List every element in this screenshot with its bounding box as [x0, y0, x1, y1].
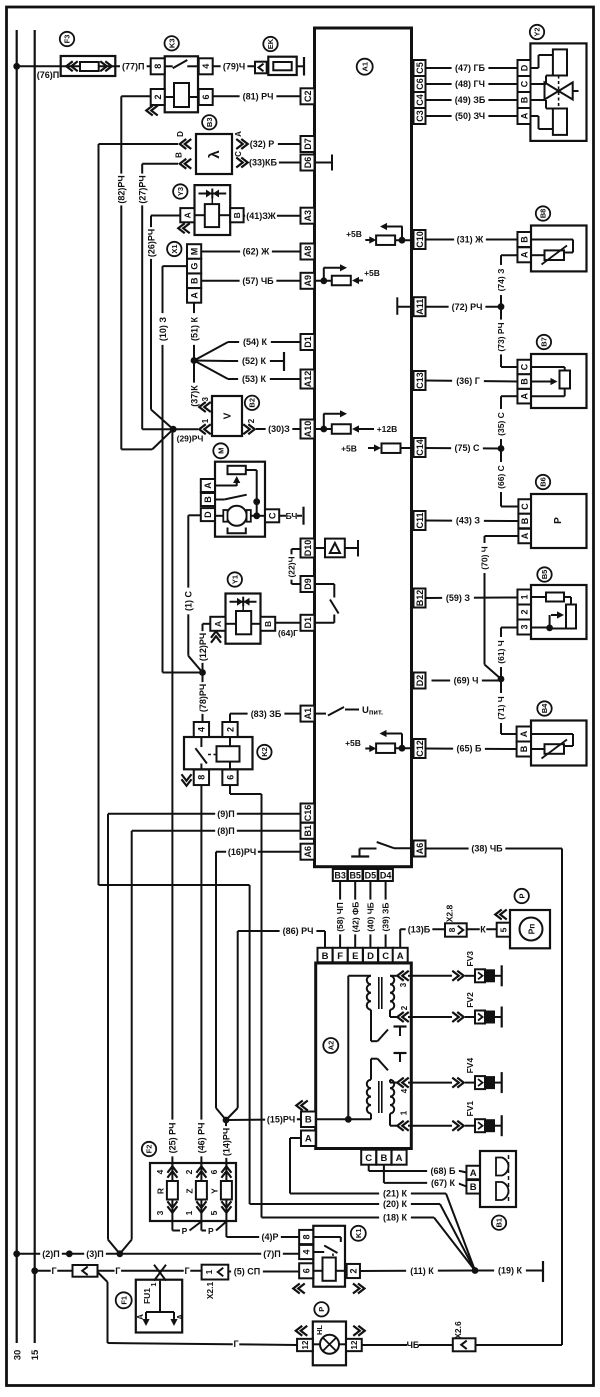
svg-text:(77)П: (77)П	[122, 62, 144, 72]
svg-text:X1: X1	[170, 244, 179, 253]
A2 bottom pin C	[361, 1150, 376, 1165]
label (15)РЧ	[265, 1114, 297, 1125]
svg-text:C12: C12	[415, 740, 425, 757]
svg-text:C13: C13	[415, 372, 425, 389]
label (53) К	[238, 373, 270, 384]
valve Y3 pin B	[230, 208, 243, 222]
relay K3 body	[165, 56, 198, 112]
relay K1 pin 2	[347, 1264, 360, 1278]
svg-text:(78)РЧ: (78)РЧ	[198, 684, 208, 712]
svg-text:X2.8: X2.8	[445, 904, 455, 922]
lambda B3 pin C	[236, 157, 243, 167]
svg-text:2: 2	[400, 1005, 409, 1010]
A2 left pin B	[301, 1112, 316, 1128]
svg-text:K1: K1	[354, 1229, 363, 1239]
ECU pin D6 (left, y=162.5)	[301, 155, 315, 171]
label (43) З	[452, 515, 484, 526]
svg-text:B: B	[322, 951, 329, 962]
label (66) С	[496, 462, 506, 492]
ECU pin D4 (bottom)	[378, 869, 393, 881]
svg-text:D: D	[367, 951, 374, 962]
svg-text:B: B	[174, 152, 183, 158]
svg-text:B: B	[203, 496, 213, 503]
motor M trimmer	[228, 466, 246, 474]
connector mark K2-8	[181, 774, 191, 781]
sensor B5 designator	[537, 567, 551, 581]
label К	[480, 924, 487, 935]
label (62) Ж	[240, 246, 272, 257]
connector X1 pin G	[187, 259, 201, 274]
wire fan to (52)К	[194, 360, 228, 363]
svg-text:B: B	[519, 96, 529, 103]
terminator (52)К	[283, 352, 285, 371]
svg-text:FV3: FV3	[465, 951, 475, 967]
ECU pin A3 (left, y=215.7)	[301, 208, 315, 224]
svg-text:(70) Ч: (70) Ч	[480, 546, 490, 569]
svg-text:C16: C16	[303, 805, 313, 822]
svg-text:B: B	[380, 1153, 387, 1164]
svg-text:D2: D2	[415, 675, 425, 687]
wire (5)СП	[228, 1271, 299, 1273]
label (14)РЧ	[221, 1126, 231, 1158]
connector mark K1 right	[353, 1283, 360, 1293]
stepper Y2 coil 1	[553, 49, 567, 75]
svg-text:A: A	[519, 730, 529, 737]
svg-text:6: 6	[301, 1268, 311, 1273]
sensor B5 trimmer	[566, 605, 576, 629]
ECU pin D5 (bottom)	[363, 869, 378, 881]
ECU pin C6 (right, y=84)	[414, 76, 426, 92]
svg-text:C: C	[365, 1153, 372, 1164]
svg-text:B: B	[520, 517, 530, 524]
wire B3-C to D6	[250, 162, 301, 164]
sensor B2 body	[212, 396, 242, 436]
connector X2.6	[453, 1338, 476, 1351]
svg-text:A9: A9	[303, 275, 313, 287]
junction (14)РЧ	[223, 1117, 230, 1124]
svg-text:D: D	[519, 64, 529, 71]
ECU pin C10 (right, y=239.5)	[414, 230, 426, 249]
svg-text:(67) К: (67) К	[431, 1178, 456, 1188]
relay K3 pin 6	[199, 89, 213, 105]
wire (35)С	[501, 395, 517, 397]
wire (11)К	[360, 1270, 475, 1273]
label Г 4	[233, 1338, 240, 1349]
wire (49)ЗБ	[425, 99, 517, 101]
motor M contact dots	[253, 498, 260, 505]
junction (75)С	[498, 445, 505, 452]
label (50) ЗЧ	[452, 110, 489, 121]
sensor B7 body	[531, 354, 587, 408]
svg-text:4: 4	[197, 727, 207, 732]
wire (27)РЧ vertical	[142, 163, 178, 165]
label (18) К	[379, 1212, 411, 1223]
svg-text:(10) З: (10) З	[158, 317, 168, 342]
junction bus30 bottom	[13, 1250, 20, 1257]
wire (9)П	[108, 813, 301, 815]
svg-text:FU1: FU1	[142, 1288, 152, 1304]
label (71) Ч	[496, 693, 506, 723]
svg-text:B5: B5	[349, 871, 361, 881]
wire (86)РЧ	[324, 931, 326, 948]
svg-text:Р: Р	[182, 1226, 188, 1236]
relay K1 pin 4	[299, 1245, 313, 1259]
svg-text:Y3: Y3	[176, 187, 185, 196]
wire (15)РЧ	[226, 1118, 301, 1121]
stepper Y2 wiring D	[530, 67, 538, 69]
wire (10)З vertical	[163, 265, 188, 267]
svg-text:+5В: +5В	[346, 229, 362, 239]
svg-text:(74) З: (74) З	[496, 269, 506, 292]
stepper Y2 coil 2	[553, 109, 567, 135]
sensor B4 pin A	[517, 727, 531, 742]
label (32) Р	[246, 138, 278, 149]
svg-text:C: C	[382, 951, 389, 962]
relay K1 designator	[351, 1226, 366, 1241]
wire (82)РЧ vertical	[157, 96, 159, 105]
svg-text:(21) К: (21) К	[383, 1189, 408, 1199]
relay K3 designator	[165, 36, 179, 50]
label (65) Б	[453, 743, 485, 754]
ECU pin A6 (right, y=848.5)	[414, 841, 426, 857]
ECU pin C4 (right, y=100)	[414, 92, 426, 108]
A2 top pin C	[378, 948, 393, 963]
wire (70)Ч	[485, 535, 519, 537]
svg-text:(83) ЗБ: (83) ЗБ	[251, 709, 282, 719]
wire fan to (54)К	[194, 342, 228, 361]
lamp HL bulb	[320, 1335, 339, 1354]
svg-text:8: 8	[197, 775, 207, 780]
svg-text:B4: B4	[540, 703, 549, 713]
stepper Y2 body	[530, 43, 586, 140]
svg-text:+5В: +5В	[345, 738, 361, 748]
stepper Y2 wiring C	[530, 83, 546, 85]
sensor B2 pin 2	[243, 424, 250, 434]
svg-text:4: 4	[201, 64, 211, 69]
relay K2 pin 4	[194, 722, 209, 737]
svg-text:(73) РЧ: (73) РЧ	[496, 322, 506, 351]
svg-text:2: 2	[153, 94, 163, 99]
svg-text:(36) Г: (36) Г	[456, 376, 480, 386]
svg-text:(15)РЧ: (15)РЧ	[267, 1115, 295, 1125]
ECU pin A11 (right, y=306.7)	[414, 297, 426, 316]
svg-text:(1) С: (1) С	[184, 591, 194, 612]
connector Г	[73, 1265, 98, 1277]
sensor B2 pin 3	[199, 402, 206, 412]
svg-text:(58) ЧП: (58) ЧП	[335, 902, 345, 932]
fuse block F2 box	[150, 1163, 236, 1221]
svg-text:4: 4	[400, 1088, 409, 1093]
sensor B4 wiring	[531, 733, 573, 735]
sensor B7 pin B	[517, 374, 531, 389]
spark plug FV2 connector	[452, 1012, 459, 1022]
ignition module A2 box	[316, 963, 412, 1149]
wire (8)П	[132, 830, 301, 832]
relay K3 pin 2	[151, 89, 165, 105]
label (67) К	[427, 1177, 459, 1188]
svg-text:6: 6	[225, 775, 235, 780]
svg-text:(62) Ж: (62) Ж	[243, 247, 271, 257]
label (37)К	[189, 383, 199, 410]
svg-text:M: M	[189, 248, 199, 256]
svg-text:D1: D1	[303, 336, 313, 348]
A2 bottom pin A	[392, 1150, 407, 1165]
ECU pin C13 (right, y=380.5)	[414, 371, 426, 390]
svg-text:(31) Ж: (31) Ж	[457, 235, 485, 245]
svg-text:A3: A3	[303, 210, 313, 222]
svg-text:C2: C2	[303, 91, 313, 103]
A2 transformer 2 secondary	[390, 1080, 394, 1114]
ECU pin A6 (left, y=851.7)	[301, 844, 315, 860]
ECU pin B3 (bottom)	[333, 869, 348, 881]
svg-text:V: V	[223, 412, 234, 419]
svg-text:1: 1	[519, 594, 529, 599]
svg-text:R: R	[155, 1188, 165, 1194]
label (7)П	[261, 1248, 283, 1259]
sensor B8 body	[531, 226, 587, 272]
wire (14)РЧ vertical	[225, 1120, 227, 1167]
svg-text:Р: Р	[208, 1226, 214, 1236]
svg-text:(20) К: (20) К	[383, 1199, 408, 1209]
label (9)П	[215, 808, 237, 819]
fuse block F2 designator	[142, 1142, 156, 1156]
svg-text:G: G	[189, 263, 199, 270]
label (59) З	[442, 592, 474, 603]
sensor B8 pin A	[517, 247, 531, 262]
label (38) ЧБ	[469, 843, 506, 854]
label (73) РЧ	[496, 320, 506, 355]
wire (2)П/(3)П/(7)П	[17, 1253, 300, 1255]
svg-text:(52) К: (52) К	[242, 356, 267, 366]
svg-text:B1: B1	[495, 1218, 504, 1228]
fuse F1 designator	[116, 1292, 132, 1308]
ECU pin D9 (left, y=584)	[301, 576, 315, 592]
fuse F1 box	[136, 1280, 182, 1333]
wire (12)РЧ vertical	[203, 623, 211, 625]
svg-text:(22)Ч: (22)Ч	[287, 556, 297, 577]
label (5) СП	[231, 1266, 263, 1277]
svg-text:A6: A6	[415, 843, 425, 855]
ECU internal D6 stub	[315, 162, 333, 164]
svg-text:Р: Р	[317, 1307, 326, 1312]
relay K1 coil	[323, 1258, 336, 1281]
motor M body	[215, 462, 265, 537]
sensor B2 pin 1	[199, 424, 206, 434]
svg-text:(29)РЧ: (29)РЧ	[177, 434, 204, 444]
wire (68)Б	[368, 1165, 370, 1171]
svg-text:FV1: FV1	[465, 1101, 475, 1117]
ECU A1 designator	[357, 59, 373, 75]
connector B1 body	[480, 1151, 516, 1207]
label (70) Ч	[480, 543, 490, 573]
ignition module A2 designator	[323, 1038, 338, 1053]
wire (71)Ч	[500, 679, 502, 734]
svg-text:A12: A12	[303, 371, 313, 388]
label (75) С	[451, 442, 483, 453]
fuse F3 designator	[60, 32, 74, 46]
svg-text:5: 5	[498, 927, 508, 932]
ECU pin D1 (left, y=622.8)	[301, 615, 315, 631]
svg-text:(38) ЧБ: (38) ЧБ	[471, 844, 503, 854]
svg-text:(54) К: (54) К	[243, 337, 268, 347]
wire (75)С	[425, 447, 501, 450]
wire X1-M to A8	[201, 251, 300, 253]
svg-text:(33)КБ: (33)КБ	[249, 158, 277, 168]
label (12)РЧ	[197, 631, 207, 663]
svg-text:(59) З: (59) З	[446, 593, 471, 603]
lamp HL body	[313, 1322, 346, 1366]
svg-text:3: 3	[155, 1210, 165, 1215]
svg-text:A: A	[470, 1168, 477, 1179]
label (1) С	[183, 588, 193, 615]
label (57) ЧБ	[240, 275, 277, 286]
ECU pin C3 (right, y=116)	[414, 108, 426, 124]
svg-text:EK: EK	[266, 38, 275, 49]
wire (67)К	[383, 1165, 385, 1183]
connector B1 pin B	[466, 1180, 480, 1194]
svg-text:Y: Y	[209, 1188, 219, 1194]
label (36) Г	[452, 375, 484, 386]
svg-text:(51) К: (51) К	[189, 316, 199, 341]
label (3)П	[84, 1248, 106, 1259]
label (77)П	[120, 61, 147, 72]
sensor B6 pin B	[518, 514, 531, 529]
svg-text:(4)Р: (4)Р	[261, 1232, 278, 1242]
element EK connector	[255, 62, 267, 74]
valve Y1 diode	[230, 601, 257, 603]
junction (3)П	[66, 1250, 73, 1257]
svg-text:+5В: +5В	[341, 443, 357, 453]
svg-text:X2.6: X2.6	[453, 1321, 463, 1339]
label (72) РЧ	[449, 301, 486, 312]
motor M pin A	[201, 479, 215, 492]
svg-text:F1: F1	[119, 1296, 128, 1305]
svg-text:(39) ЗБ: (39) ЗБ	[381, 903, 391, 932]
wire K2-6 to (18)К	[229, 785, 231, 794]
lambda sensor B3 designator	[202, 115, 216, 129]
svg-text:B7: B7	[540, 337, 549, 347]
svg-text:(35) С: (35) С	[496, 412, 506, 436]
svg-text:2: 2	[225, 727, 235, 732]
ECU pin C12 (right, y=748.5)	[414, 739, 426, 758]
svg-text:Z: Z	[184, 1188, 194, 1193]
svg-text:8: 8	[447, 927, 457, 932]
spark plug FV1 gap electrode	[501, 1115, 503, 1136]
connector mark below K3 pin2	[146, 105, 153, 115]
label (79)Ч	[221, 61, 248, 72]
svg-text:B6: B6	[539, 477, 548, 487]
valve Y1 designator	[228, 572, 242, 586]
A2 transformer 1 secondary	[390, 976, 394, 1010]
svg-text:C5: C5	[415, 62, 425, 74]
svg-text:C3: C3	[415, 110, 425, 122]
wire lambda D to (20)К	[99, 143, 179, 145]
wire B2-2 to A10	[256, 428, 301, 430]
lamp HL pin 12 left	[297, 1339, 313, 1351]
svg-text:+12В: +12В	[377, 424, 398, 434]
svg-text:M: M	[217, 448, 226, 454]
svg-text:(12)РЧ: (12)РЧ	[198, 633, 208, 661]
label (4)Р	[259, 1231, 281, 1242]
A2 internal feed	[345, 1116, 352, 1123]
label (82)РЧ	[116, 174, 126, 206]
svg-text:A1: A1	[303, 708, 313, 720]
svg-text:1: 1	[184, 1210, 194, 1215]
stepper Y2 wiring B	[530, 99, 546, 101]
connector mark HL left	[296, 1326, 303, 1336]
sensor B5 pin 1	[517, 590, 531, 605]
svg-text:Г: Г	[51, 1266, 56, 1276]
svg-text:FV4: FV4	[465, 1058, 475, 1074]
ECU internal A9 pullup	[315, 280, 333, 282]
svg-text:B3: B3	[334, 871, 346, 881]
svg-text:D7: D7	[303, 138, 313, 150]
svg-text:(72) РЧ: (72) РЧ	[452, 302, 483, 312]
fuel pump P designator	[515, 889, 529, 903]
svg-text:(41)ЗЖ: (41)ЗЖ	[246, 211, 276, 221]
sensor B7 pin A	[517, 389, 531, 404]
svg-text:2: 2	[519, 609, 529, 614]
junction (69)Ч	[498, 676, 505, 683]
svg-text:A: A	[397, 951, 404, 962]
svg-text:D6: D6	[303, 157, 313, 169]
svg-text:(19) К: (19) К	[498, 1266, 523, 1276]
svg-text:Р: Р	[517, 893, 526, 898]
svg-text:B: B	[519, 745, 529, 752]
sensor B7 potentiometer	[560, 371, 571, 389]
wire (22)Ч	[292, 548, 301, 550]
wire (38)ЧБ	[425, 848, 562, 850]
A2 top pin F	[333, 948, 348, 963]
spark plug FV2 body	[475, 1011, 485, 1024]
wire (25)РЧ vertical	[171, 429, 173, 1167]
svg-text:A2: A2	[327, 1041, 336, 1051]
wire bus30 to F3	[17, 65, 61, 67]
svg-text:(32) Р: (32) Р	[250, 139, 275, 149]
svg-text:B1: B1	[303, 825, 313, 837]
sensor B7 pin C	[517, 360, 531, 375]
connector mark pump pin5	[495, 909, 502, 919]
connector X1 designator	[167, 242, 181, 256]
relay K3 pin 8	[151, 58, 165, 74]
svg-text:D: D	[203, 511, 213, 518]
svg-text:12: 12	[301, 1340, 310, 1349]
spark plug FV3 body	[475, 969, 485, 982]
spark plug FV1 body	[475, 1119, 485, 1132]
wire (46)РЧ vertical	[200, 785, 202, 1167]
svg-text:B8: B8	[539, 209, 548, 219]
svg-text:λ: λ	[206, 150, 223, 159]
relay K1 link dashes	[332, 1254, 334, 1259]
valve Y3 pin A	[180, 208, 194, 222]
svg-text:(30)З: (30)З	[268, 424, 290, 434]
wire K3-4 to EK	[213, 65, 255, 67]
valve Y1 coil	[236, 611, 251, 634]
svg-text:(14)РЧ: (14)РЧ	[222, 1128, 232, 1156]
spark plug FV4 wire	[411, 1082, 452, 1084]
relay K3 coil	[165, 96, 174, 98]
svg-text:(18) К: (18) К	[383, 1213, 408, 1223]
wire (13)Б	[399, 929, 401, 948]
svg-text:3: 3	[201, 397, 210, 402]
sensor B5 pin 2	[517, 605, 531, 620]
motor M pin D	[201, 508, 215, 521]
svg-text:6: 6	[201, 94, 211, 99]
valve Y3 designator	[173, 184, 187, 198]
svg-text:D1: D1	[303, 617, 313, 629]
svg-text:Г: Г	[115, 1266, 120, 1276]
label (33)КБ	[247, 157, 279, 168]
